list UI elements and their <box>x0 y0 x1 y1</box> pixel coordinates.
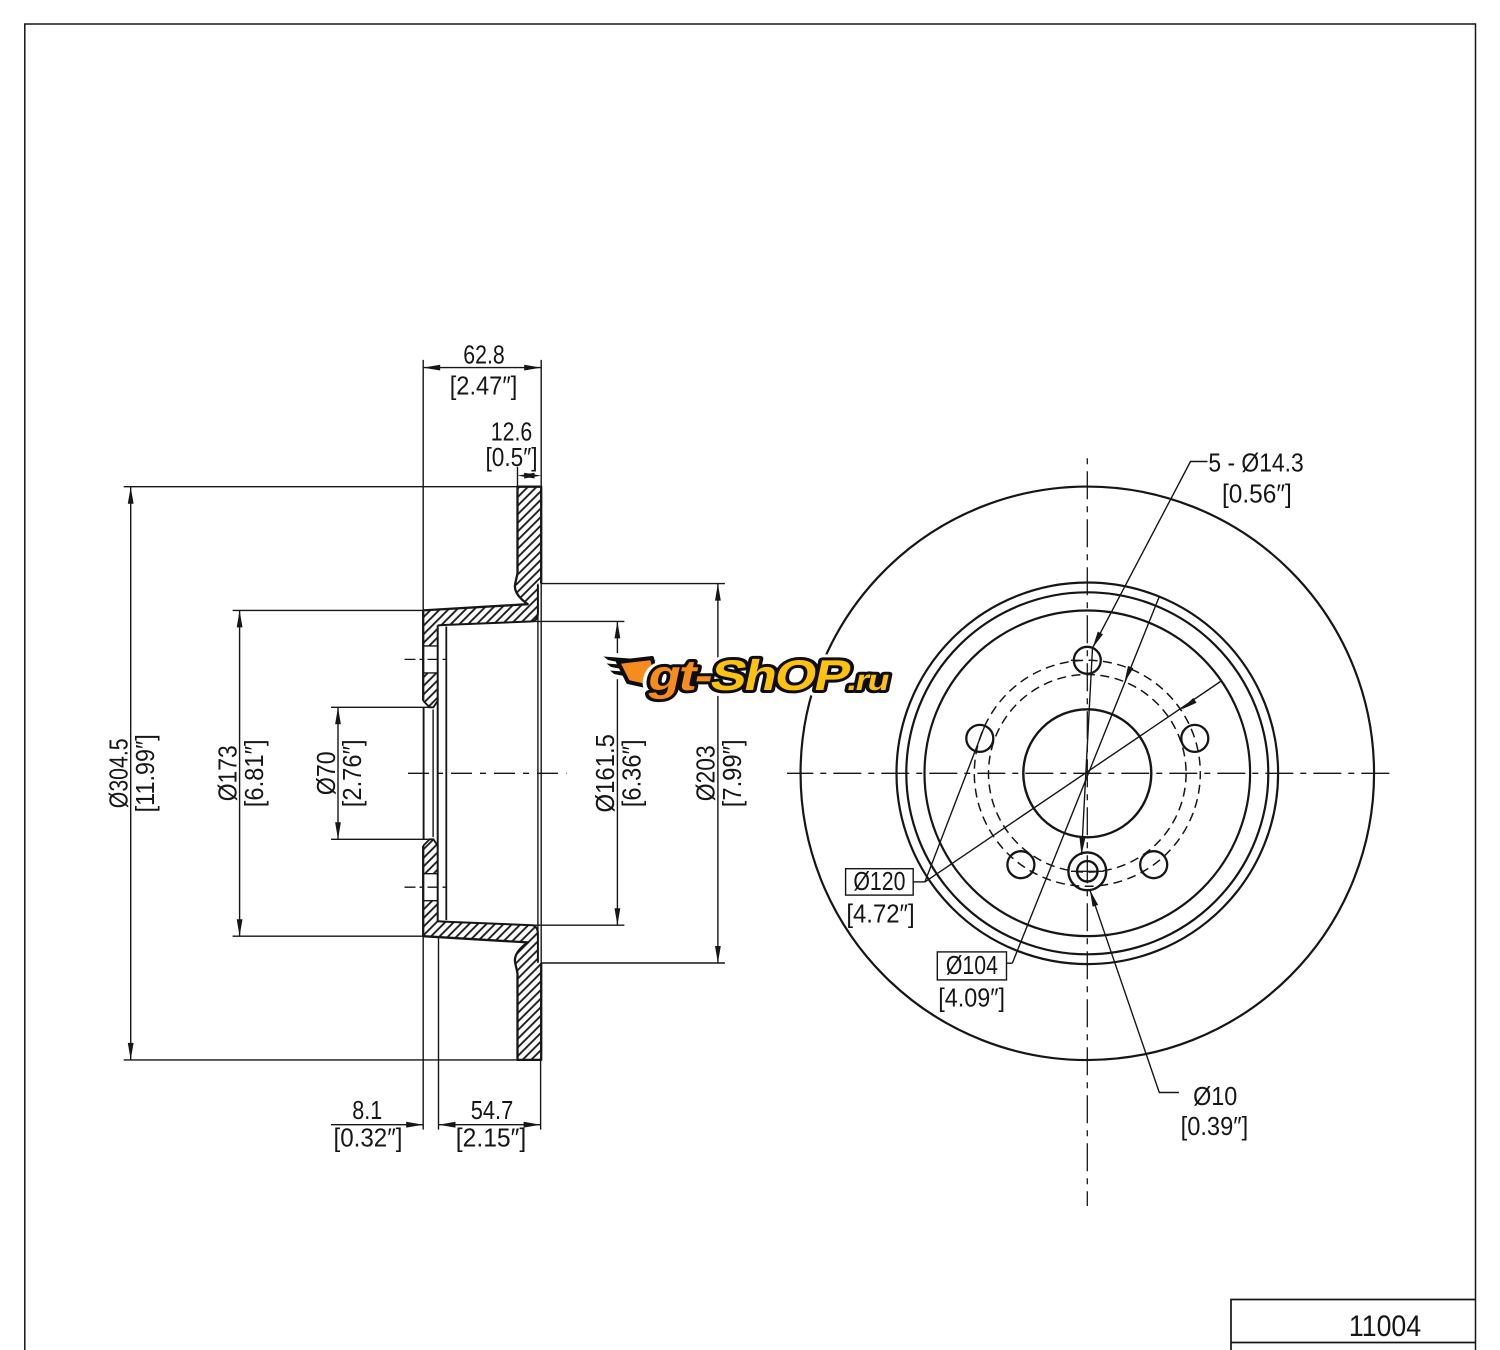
dimension D304.5: dimension line <box>130 487 132 1060</box>
svg-text:5 - Ø14.3: 5 - Ø14.3 <box>1208 449 1303 478</box>
front view: horizontal centre line <box>787 772 1391 774</box>
section: hat inner bottom surface <box>438 921 538 961</box>
section: bolt hole centre mark top <box>405 658 446 660</box>
leader D104 tick <box>1007 962 1013 964</box>
dimension 62.8: dimension line <box>423 367 541 369</box>
dimension D203: dimension line <box>717 584 719 963</box>
bolt hole D14.3 at 18 deg <box>1181 725 1208 752</box>
section: bolt hole edges in flange (top half) <box>423 646 438 673</box>
svg-text:[0.32″]: [0.32″] <box>333 1124 402 1153</box>
leader 5-D14.3 <box>1093 462 1208 649</box>
dimension 54.7: dimension line <box>439 1124 541 1126</box>
dimension D70: extension lines <box>331 707 433 839</box>
svg-text:[4.09″]: [4.09″] <box>938 984 1005 1012</box>
front view: circle braking surface edge <box>906 592 1268 954</box>
svg-text:Ø70: Ø70 <box>313 751 342 795</box>
section: friction ring + hat band hatched area (bottom half) <box>423 901 541 1060</box>
section: bore far-side silhouette line <box>432 710 434 838</box>
bolt hole D14.3 at 90 deg <box>1074 647 1101 674</box>
section: flange lower hatched area (top half, below bolt hole) <box>423 673 438 707</box>
dimension D173: dimension line <box>239 610 241 936</box>
svg-text:Ø120: Ø120 <box>853 867 905 897</box>
dimension D70: dimension line <box>337 707 339 839</box>
leader D120 main line through centre <box>925 682 1221 882</box>
svg-text:[0.56″]: [0.56″] <box>1222 480 1292 509</box>
section: axis centre line <box>408 772 567 774</box>
svg-text:[0.5″]: [0.5″] <box>485 443 537 472</box>
section: bolt hole centre mark bottom <box>405 886 446 888</box>
svg-text:11004: 11004 <box>1349 1310 1421 1344</box>
svg-text:[4.72″]: [4.72″] <box>846 899 914 928</box>
dimension D203: extension lines <box>541 584 725 963</box>
svg-text:8.1: 8.1 <box>352 1096 382 1125</box>
top bolt hole centre tick <box>1071 659 1080 661</box>
section outline: outer profile bottom half <box>423 846 541 1060</box>
front view: vertical centre line <box>1086 458 1088 1206</box>
dimension 54.7: extension line <box>540 1060 542 1130</box>
svg-text:Ø10: Ø10 <box>1193 1083 1237 1111</box>
section: friction ring + hat band hatched area (top half) <box>423 487 541 646</box>
section: hat inner wall <box>445 627 447 921</box>
leader D120 secondary line through left hole <box>925 725 985 882</box>
leader D104 line through centre <box>1012 597 1159 963</box>
front view: circle D203 (friction ring inner) <box>897 583 1279 965</box>
svg-text:[6.36″]: [6.36″] <box>618 739 647 807</box>
svg-text:Ø104: Ø104 <box>946 951 998 981</box>
svg-text:Ø173: Ø173 <box>214 745 243 801</box>
logo swoosh wedge <box>618 658 659 689</box>
gt-shop.ru watermark logo <box>604 657 660 690</box>
bolt hole D14.3 at 162 deg <box>966 725 993 752</box>
pin hole centre tick <box>1071 870 1104 872</box>
front view: bolt circle D120 (dashed) <box>974 660 1200 886</box>
bolt hole D14.3 at 306 deg <box>1140 851 1167 878</box>
dimension D173: extension lines <box>233 610 424 936</box>
section outline: outer profile top half <box>423 487 541 701</box>
dimension D161.5: extension lines <box>533 621 624 925</box>
section: hat interior silhouette lines <box>538 584 541 963</box>
svg-text:[2.47″]: [2.47″] <box>450 373 518 401</box>
leader D10 <box>1090 890 1179 1093</box>
leader continuation to pin hole <box>1082 648 1093 855</box>
svg-text:Ø161.5: Ø161.5 <box>591 734 620 812</box>
front view: hub bore D70 <box>1023 709 1151 837</box>
dimension 12.6: arrows <box>518 473 535 479</box>
section: bore chamfer edges bottom <box>423 839 438 846</box>
svg-text:[2.15″]: [2.15″] <box>456 1124 527 1153</box>
front view: outer circle D304.5 <box>801 487 1375 1061</box>
pin hole D10 outer edge <box>1068 852 1106 890</box>
section: bore near-side silhouette line <box>423 707 425 839</box>
section: flange right face <box>437 625 439 921</box>
label D104 box <box>937 952 1006 980</box>
dimension D161.5: dimension line <box>616 621 618 925</box>
svg-text:[6.81″]: [6.81″] <box>240 739 269 807</box>
svg-text:[11.99″]: [11.99″] <box>132 734 160 812</box>
dimension 62.8: extension lines <box>423 360 541 611</box>
section: hat inner top surface <box>438 585 538 625</box>
section: bore chamfer edges top <box>423 701 438 708</box>
dimension 8.1: dimension line with arrow <box>331 1124 423 1126</box>
svg-text:54.7: 54.7 <box>471 1096 513 1125</box>
svg-text:[0.39″]: [0.39″] <box>1181 1113 1249 1141</box>
dimension 8.1: extension lines <box>423 936 438 1129</box>
front view: pin circle D104 (dashed) <box>989 675 1187 873</box>
dimension 12.6: extension line <box>517 467 519 487</box>
bolt hole D14.3 at 234 deg <box>1007 851 1034 878</box>
svg-text:Ø304.5: Ø304.5 <box>105 738 135 808</box>
svg-text:Ø203: Ø203 <box>692 745 721 801</box>
leader D120 tick <box>913 881 925 883</box>
title block <box>1231 1300 1476 1350</box>
label D120 box <box>846 869 914 895</box>
section: flange upper hatched area (bottom half, above bolt hole) <box>423 839 438 873</box>
section: bolt hole edges in flange (bottom half) <box>423 874 438 901</box>
pin hole D10 inner circle <box>1077 861 1097 881</box>
svg-text:62.8: 62.8 <box>463 340 504 370</box>
svg-text:[2.76″]: [2.76″] <box>338 739 367 807</box>
logo speed lines black <box>604 657 657 679</box>
front view: circle D173 (hat outer) <box>925 611 1251 937</box>
dimension D304.5: extension lines <box>124 487 518 1060</box>
svg-text:[7.99″]: [7.99″] <box>718 739 747 807</box>
